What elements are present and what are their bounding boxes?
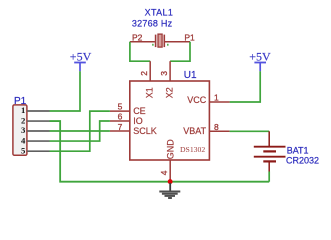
svg-text:BAT1: BAT1 bbox=[287, 145, 309, 155]
U1 pin VBAT (pin 8) bbox=[209, 130, 229, 132]
U1 pin X1 (pin 2) bbox=[149, 61, 151, 81]
svg-text:X1: X1 bbox=[145, 87, 155, 98]
U1 pin VCC (pin 1) bbox=[209, 101, 229, 103]
svg-text:DS1302: DS1302 bbox=[180, 145, 205, 154]
connector P1 pin stubs bbox=[27, 111, 50, 151]
U1 pin CE (pin 5) bbox=[110, 110, 130, 112]
svg-text:7: 7 bbox=[118, 122, 123, 132]
svg-text:2: 2 bbox=[21, 115, 25, 125]
wire BAT1 negative to ground rail bbox=[268, 172, 270, 182]
svg-text:VCC: VCC bbox=[187, 95, 207, 105]
svg-text:5: 5 bbox=[118, 102, 123, 112]
svg-text:1: 1 bbox=[21, 105, 25, 115]
wire +5V to U1 VCC bbox=[230, 71, 261, 102]
svg-text:8: 8 bbox=[214, 122, 219, 132]
svg-text:32768 Hz: 32768 Hz bbox=[132, 19, 173, 29]
svg-text:GND: GND bbox=[166, 139, 176, 160]
battery BAT1 bbox=[254, 131, 286, 171]
U1 pin SCLK (pin 7) bbox=[110, 130, 130, 132]
svg-text:2: 2 bbox=[139, 71, 149, 76]
U1 pin X2 (pin 3) bbox=[169, 61, 171, 81]
+5V power symbol left bbox=[70, 50, 92, 72]
U1 pin IO (pin 6) bbox=[110, 120, 130, 122]
wire U1 CE to P1 pin 5 bbox=[50, 111, 110, 151]
crystal pin-end marks bbox=[152, 44, 168, 46]
svg-text:CE: CE bbox=[133, 106, 146, 116]
connector P1 pad numbers bbox=[21, 105, 26, 155]
svg-text:6: 6 bbox=[118, 112, 123, 122]
svg-text:U1: U1 bbox=[184, 70, 197, 81]
svg-text:+5V: +5V bbox=[249, 50, 271, 64]
connector P1 body bbox=[13, 105, 27, 155]
svg-text:3: 3 bbox=[21, 125, 26, 135]
wire +5V to P1 pin 1 bbox=[50, 71, 81, 111]
svg-text:XTAL1: XTAL1 bbox=[145, 8, 174, 18]
wire U1 SCLK to P1 pin 3 bbox=[50, 130, 110, 132]
crystal XTAL1 body bbox=[130, 34, 190, 47]
wire U1 IO to P1 pin 4 bbox=[50, 121, 110, 141]
IC U1 DS1302 body bbox=[130, 81, 210, 160]
svg-text:CR2032: CR2032 bbox=[286, 155, 319, 165]
U1 pin GND (pin 4) bbox=[169, 160, 171, 182]
+5V power symbol right bbox=[249, 50, 271, 72]
svg-text:5: 5 bbox=[21, 145, 26, 155]
svg-text:3: 3 bbox=[159, 71, 169, 76]
svg-text:1: 1 bbox=[214, 92, 219, 102]
junction node on ground rail bbox=[168, 179, 173, 184]
svg-text:4: 4 bbox=[21, 135, 26, 145]
wire crystal P2 to U1 X1 bbox=[130, 42, 150, 61]
svg-text:VBAT: VBAT bbox=[183, 126, 206, 136]
ground symbol bbox=[159, 183, 180, 198]
wire P1 pin 2 to ground rail bbox=[50, 121, 270, 182]
svg-text:+5V: +5V bbox=[70, 50, 92, 64]
svg-text:4: 4 bbox=[159, 170, 169, 175]
svg-text:SCLK: SCLK bbox=[133, 126, 157, 136]
wire U1 VBAT to BAT1 bbox=[230, 130, 270, 132]
svg-text:X2: X2 bbox=[165, 87, 175, 98]
svg-text:IO: IO bbox=[133, 116, 143, 126]
wire crystal P1 to U1 X2 bbox=[170, 42, 190, 61]
